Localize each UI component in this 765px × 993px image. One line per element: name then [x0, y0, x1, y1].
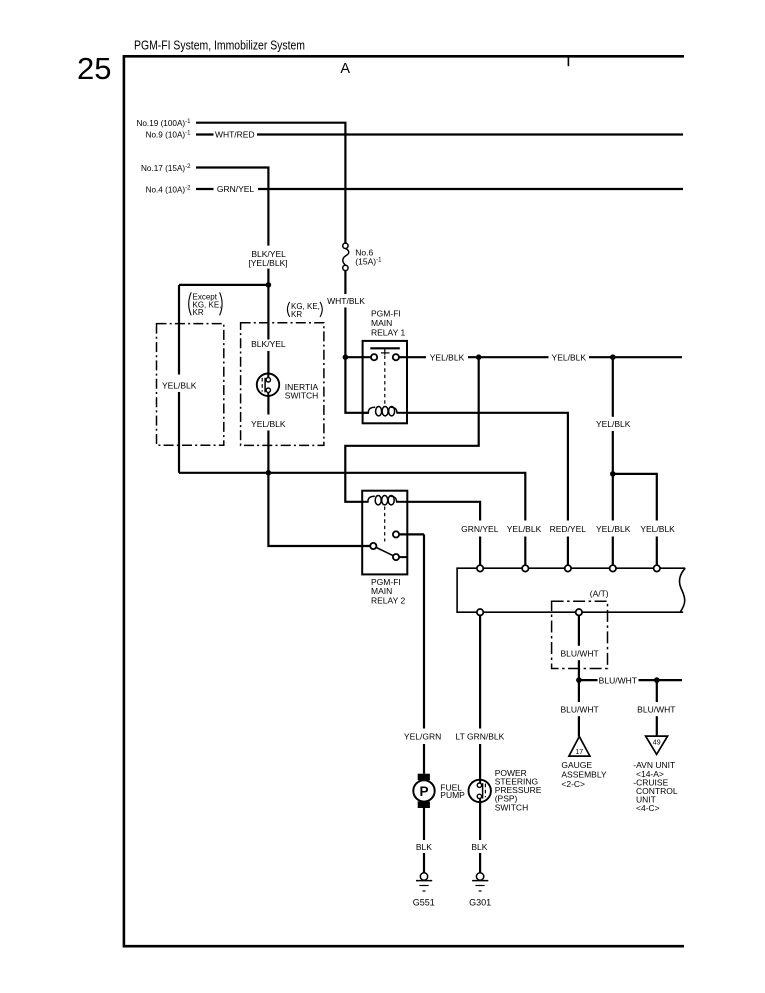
svg-text:P: P — [419, 784, 428, 799]
wire YEL/BLK continues — [468, 356, 549, 358]
svg-text:GAUGE: GAUGE — [561, 760, 592, 770]
node BLU/WHT junction 1 — [576, 677, 582, 683]
svg-text:YEL/BLK: YEL/BLK — [430, 352, 465, 362]
inertia switch S1 — [257, 374, 319, 401]
wire BLU/WHT continues — [578, 716, 580, 736]
pin BLU/WHT bottom (A/T) — [576, 609, 582, 615]
pin YEL/BLK bus — [522, 565, 528, 571]
wire YEL/GRN relay 2 output to fuel pump — [399, 533, 424, 535]
ground G301 — [469, 873, 491, 908]
svg-text:YEL/GRN: YEL/GRN — [404, 732, 441, 742]
PSP switch S2 — [469, 768, 542, 812]
pin YEL/BLK 5 — [654, 565, 660, 571]
svg-text:YEL/BLK: YEL/BLK — [596, 524, 631, 534]
svg-text:BLU/WHT: BLU/WHT — [599, 675, 637, 685]
wire to relay 1 coil — [345, 357, 368, 413]
svg-text:LT GRN/BLK: LT GRN/BLK — [455, 732, 504, 742]
svg-text:ASSEMBLY: ASSEMBLY — [561, 770, 607, 780]
svg-text:YEL/BLK: YEL/BLK — [507, 524, 542, 534]
svg-text:A: A — [340, 61, 350, 77]
fuse feed No.17 (15A) label — [141, 164, 191, 173]
wire GRN/YEL relay 2 coil to ECM — [407, 502, 480, 521]
wire LT GRN/BLK continues — [479, 744, 481, 780]
svg-text:PUMP: PUMP — [440, 790, 465, 800]
svg-text:No.17 (15A)-2: No.17 (15A)-2 — [141, 164, 191, 173]
wire YEL/BLK bypass continues — [178, 392, 180, 473]
svg-text:25: 25 — [77, 51, 111, 86]
svg-text:BLK/YEL: BLK/YEL — [251, 339, 286, 349]
svg-text:RED/YEL: RED/YEL — [550, 524, 587, 534]
svg-text:RELAY 2: RELAY 2 — [371, 596, 405, 606]
wire BLK continues — [423, 853, 425, 873]
pin LT GRN/BLK bottom — [477, 609, 483, 615]
wire BLK PSP to ground — [479, 802, 481, 840]
wire LT GRN/BLK to PSP switch — [479, 615, 481, 728]
svg-text:KR: KR — [291, 310, 302, 319]
wire WHT/BLK continues — [344, 308, 346, 358]
wire BLK/YEL from No.17 down — [267, 168, 269, 246]
wire GRN/YEL continues — [479, 537, 481, 566]
wire RED/YEL continues — [567, 537, 569, 566]
pin RED/YEL — [565, 565, 571, 571]
svg-text:BLU/WHT: BLU/WHT — [560, 704, 598, 714]
svg-text:<2-C>: <2-C> — [561, 779, 585, 789]
svg-text:YEL/BLK: YEL/BLK — [552, 352, 587, 362]
svg-text:49: 49 — [653, 740, 661, 747]
wire bypass branch horizontal — [179, 284, 268, 286]
pin YEL/BLK 4 — [610, 565, 616, 571]
wire YEL/BLK column continues — [612, 537, 614, 566]
svg-text:17: 17 — [575, 749, 583, 756]
fuse feed No.19 (100A) label — [136, 119, 191, 128]
node BLU/WHT junction 2 — [654, 677, 660, 683]
svg-text:YEL/BLK: YEL/BLK — [640, 524, 675, 534]
wire YEL/GRN continues — [423, 744, 425, 774]
wire from No.17 — [196, 168, 268, 170]
wire YEL/BLK column to ECM pin 4 — [612, 357, 614, 417]
wire YEL/BLK relay 1 output — [399, 356, 426, 358]
wire GRN/YEL continues — [258, 188, 683, 190]
variant box (KG, KE, KR) with inertia switch — [241, 302, 324, 446]
svg-text:YEL/BLK: YEL/BLK — [162, 380, 197, 390]
relay U1: PGM-FI MAIN RELAY 1 — [363, 309, 407, 424]
svg-text:YEL/BLK: YEL/BLK — [251, 419, 286, 429]
wire to relay 1 contact — [345, 356, 371, 358]
svg-text:GRN/YEL: GRN/YEL — [461, 524, 499, 534]
wire YEL/BLK column continues — [612, 431, 614, 521]
connector ref 17 to gauge assembly — [561, 737, 607, 790]
node YEL/BLK branch to pin 5 — [610, 471, 616, 477]
wire WHT/BLK fuse No.6 to relay 1 — [344, 271, 346, 294]
node YEL/BLK branch 2 — [610, 354, 616, 360]
node WHT/BLK junction at relay 1 — [343, 354, 349, 360]
wire BLK/YEL into switch — [267, 351, 269, 374]
wire YEL/BLK bus to ECM — [179, 473, 525, 521]
wire YEL/BLK branch to ECM pin 5 — [613, 474, 657, 521]
svg-text:G551: G551 — [413, 898, 435, 908]
svg-text:SWITCH: SWITCH — [495, 802, 529, 812]
wire BLU/WHT from A/T pin — [578, 615, 580, 645]
wire WHT/RED from No.9 — [196, 133, 214, 135]
svg-text:RELAY 1: RELAY 1 — [371, 327, 405, 337]
connector ref 49 to AVN/cruise unit — [633, 736, 678, 813]
svg-text:BLK: BLK — [416, 842, 432, 852]
node YEL/BLK branch 1 — [476, 354, 482, 360]
svg-text:No.19 (100A)-1: No.19 (100A)-1 — [136, 119, 191, 128]
svg-text:WHT/RED: WHT/RED — [215, 130, 255, 140]
fuse feed No.9 (10A) label — [146, 131, 192, 140]
fuse No.6 (15A) — [343, 243, 382, 270]
wire bus down to relay 2 common — [268, 473, 370, 546]
ECM connector box — [457, 568, 685, 612]
wire YEL/BLK bus continues — [524, 537, 526, 566]
wire from No.19 fuse — [196, 122, 347, 124]
svg-text:KR: KR — [193, 308, 204, 317]
wire BLU/WHT continues — [578, 660, 580, 680]
tick mark on top border — [567, 56, 569, 66]
fuse feed No.4 (10A) label — [146, 185, 192, 194]
pin GRN/YEL — [477, 565, 483, 571]
variant box (Except KG, KE, KR) — [157, 292, 224, 445]
wire BLU/WHT branch continues — [639, 679, 683, 681]
node branch to bypass wire — [266, 282, 272, 288]
wire YEL/BLK below inertia switch — [267, 396, 269, 415]
wire GRN/YEL from No.4 — [196, 188, 214, 190]
relay U2: PGM-FI MAIN RELAY 2 — [362, 491, 407, 606]
wire BLK fuel pump to ground — [423, 808, 425, 840]
svg-text:WHT/BLK: WHT/BLK — [327, 296, 365, 306]
wire BLU/WHT continues — [656, 716, 658, 736]
wire BLU/WHT to AVN unit — [656, 680, 658, 702]
ground G551 — [413, 873, 435, 908]
wire BLK/YEL continues — [267, 269, 269, 285]
svg-text:GRN/YEL: GRN/YEL — [217, 184, 255, 194]
svg-text:BLU/WHT: BLU/WHT — [637, 704, 675, 714]
wire YEL/BLK bypass vertical (Except KG,KE,KR) — [178, 285, 180, 375]
svg-text:No.9 (10A)-1: No.9 (10A)-1 — [146, 131, 192, 140]
svg-text:BLU/WHT: BLU/WHT — [560, 648, 598, 658]
fuel pump M1 — [413, 774, 465, 808]
svg-text:(A/T): (A/T) — [590, 589, 609, 599]
svg-text:YEL/BLK: YEL/BLK — [596, 419, 631, 429]
wire BLU/WHT horizontal branch — [579, 679, 598, 681]
wire YEL/BLK branch continues — [656, 537, 658, 566]
node bus to relay 2 — [266, 470, 272, 476]
wire RED/YEL relay 1 coil to ECM — [407, 413, 568, 521]
wire BLK continues — [479, 853, 481, 873]
wire BLU/WHT to gauge assembly — [578, 680, 580, 702]
svg-text:<4-C>: <4-C> — [636, 803, 660, 813]
svg-text:G301: G301 — [469, 898, 491, 908]
svg-text:BLK: BLK — [471, 842, 487, 852]
wire YEL/BLK continues — [267, 431, 269, 473]
wire WHT/RED continues — [257, 133, 683, 135]
svg-text:PGM-FI System, Immobilizer Sys: PGM-FI System, Immobilizer System — [134, 38, 305, 53]
border frame (open on right side) — [124, 56, 684, 946]
wire YEL/BLK to relay 2 coil — [345, 357, 478, 502]
wire BLK/YEL into inertia switch — [267, 285, 269, 340]
wire YEL/BLK continues — [589, 356, 682, 358]
svg-text:No.4 (10A)-2: No.4 (10A)-2 — [146, 185, 192, 194]
wire No.19 feed down to fuse No.6 — [344, 123, 346, 243]
svg-text:SWITCH: SWITCH — [285, 390, 319, 400]
svg-text:[YEL/BLK]: [YEL/BLK] — [248, 258, 287, 268]
